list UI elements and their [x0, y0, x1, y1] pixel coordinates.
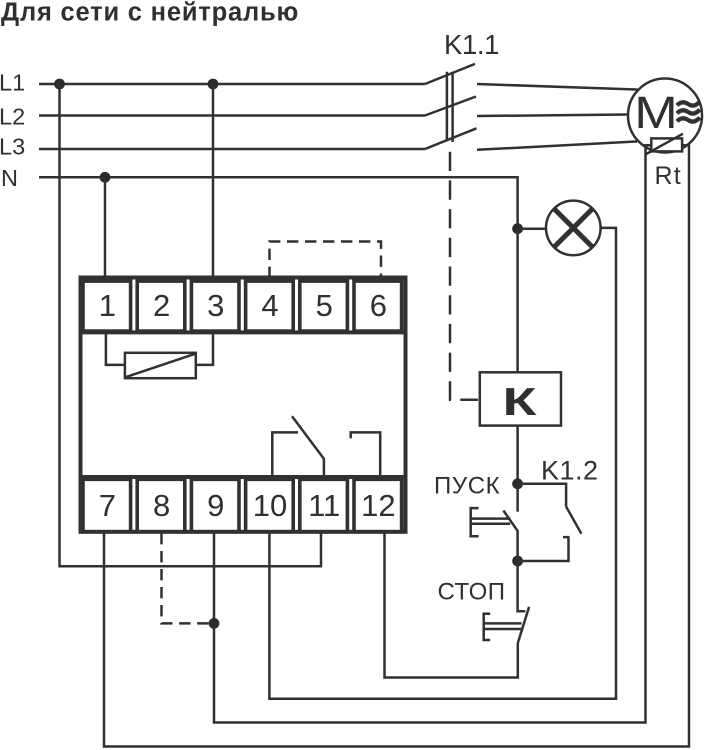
svg-text:K1.2: K1.2 — [541, 456, 599, 486]
pushbutton ПУСК blade — [503, 511, 517, 562]
terminal 5 — [300, 281, 348, 331]
terminal 10 — [246, 479, 294, 532]
wire lamp right to terminal 10 — [269, 228, 616, 699]
device outline — [81, 278, 406, 532]
terminal 3 — [191, 281, 239, 331]
contactor K1.1 pole 3 blade — [425, 128, 477, 149]
wire motor Rt left to terminal 9 — [214, 145, 651, 722]
terminal 12 — [354, 479, 402, 532]
terminal strip divider bottom — [79, 475, 408, 479]
svg-text:11: 11 — [308, 488, 340, 523]
wire L3 — [39, 148, 425, 151]
svg-text:M: M — [634, 87, 678, 138]
wire lamp node to coil K — [516, 229, 519, 373]
svg-text:4: 4 — [261, 288, 278, 323]
svg-text:10: 10 — [253, 488, 287, 523]
svg-text:8: 8 — [153, 488, 170, 523]
svg-text:L1: L1 — [0, 70, 25, 96]
node start-bottom — [512, 556, 523, 567]
terminal 7 — [83, 479, 131, 532]
wire L1 to terminal 3 — [212, 84, 215, 278]
terminal 1 — [83, 281, 131, 331]
svg-text:Для сети с нейтралью: Для сети с нейтралью — [1, 0, 299, 27]
svg-text:9: 9 — [207, 488, 224, 523]
svg-text:K1.1: K1.1 — [444, 29, 499, 60]
svg-text:3: 3 — [207, 288, 224, 323]
wire N — [39, 177, 518, 228]
contactor K1.1 linkage bar — [447, 72, 453, 142]
dashed bridge terminals 4-6 — [270, 242, 382, 279]
contact K1.2 blade — [566, 507, 581, 534]
pushbutton СТОП top stub — [518, 561, 526, 611]
node L1-b — [208, 79, 219, 90]
dashed wire terminal 8 to node — [162, 533, 212, 623]
timer coil symbol box — [125, 353, 196, 378]
motor wave symbol — [677, 102, 700, 106]
svg-text:2: 2 — [153, 288, 170, 323]
svg-text:12: 12 — [361, 488, 395, 523]
contactor K1.1 pole 2 blade — [425, 97, 476, 116]
thermal element Rt box — [651, 138, 682, 151]
relay contact blade terminal 11 — [292, 416, 324, 477]
terminal 2 — [137, 281, 185, 331]
svg-text:СТОП: СТОП — [438, 579, 506, 606]
svg-text:L2: L2 — [0, 104, 25, 130]
node start-top — [512, 478, 523, 489]
contact K1.2 top wire — [518, 484, 567, 507]
contact K1.2 bottom wire — [518, 537, 570, 561]
wire N to terminal 1 — [104, 177, 107, 278]
svg-text:ПУСК: ПУСК — [434, 473, 500, 500]
svg-text:1: 1 — [99, 288, 116, 323]
svg-text:5: 5 — [316, 288, 333, 323]
motor M circle — [628, 79, 702, 153]
lamp circle — [546, 201, 601, 256]
terminal 4 — [246, 281, 294, 331]
terminal 6 — [354, 281, 402, 331]
contactor K1.1 pole 1 blade — [425, 64, 475, 84]
terminal 8 — [137, 479, 185, 532]
relay contact terminal 10 fixed — [272, 432, 298, 477]
wire coil K to node — [516, 426, 519, 484]
svg-text:К: К — [503, 381, 537, 424]
node terminal 8/9 junction — [209, 618, 220, 629]
terminal strip divider top — [79, 330, 408, 334]
lamp cross — [554, 209, 593, 248]
coil K box — [480, 372, 561, 425]
wire terminal 1 to coil — [106, 333, 125, 365]
wire K1.1 to motor phase 3 — [477, 142, 637, 150]
wire СТОП to terminal 12 — [385, 533, 518, 678]
node lamp left — [512, 223, 523, 234]
dashed mechanical link K1.1 to coil K — [450, 152, 478, 400]
wire L2 — [39, 114, 425, 117]
pushbutton ПУСК top stub — [516, 484, 519, 512]
pushbutton СТОП blade — [518, 607, 529, 643]
wire K1.1 to motor phase 2 — [477, 115, 629, 117]
timer coil symbol diagonal — [126, 354, 195, 377]
svg-text:N: N — [1, 165, 18, 191]
node N-a — [100, 172, 111, 183]
wire terminal 3 to coil — [196, 333, 213, 365]
svg-text:Rt: Rt — [655, 162, 682, 190]
terminal 11 — [300, 479, 348, 532]
pushbutton СТОП actuator — [484, 614, 522, 640]
svg-text:7: 7 — [99, 488, 116, 523]
wire lamp left — [518, 227, 546, 230]
node L1-a — [54, 79, 65, 90]
svg-text:6: 6 — [370, 288, 387, 323]
svg-text:L3: L3 — [0, 133, 25, 159]
wire L1 — [39, 83, 425, 86]
relay contact terminal 12 fixed — [351, 432, 381, 477]
terminal 9 — [191, 479, 239, 532]
thermal element Rt diagonal — [646, 134, 683, 155]
wire L1 to terminal 11 — [60, 84, 322, 566]
wire motor Rt right to terminal 7 — [104, 145, 689, 746]
wire K1.1 to motor phase 1 — [477, 84, 638, 90]
pushbutton ПУСК actuator — [471, 508, 511, 536]
